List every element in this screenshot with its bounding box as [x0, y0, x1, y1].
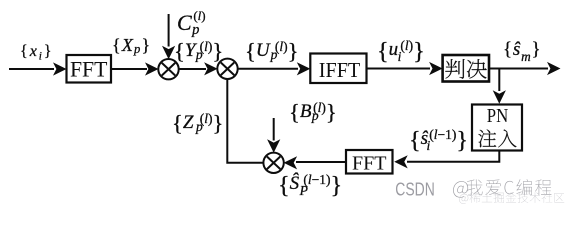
node label {u_i^(l)}: [377, 39, 425, 64]
wire: PN box down and left to bottom FFT: [407, 151, 499, 162]
wire: B_p arrow shaft: [273, 118, 275, 141]
watermark @稀土掘金技术社区: [459, 194, 468, 204]
svg-text:FFT: FFT: [352, 153, 387, 175]
node label {x_i}: [20, 44, 54, 63]
arrowhead into decision box: [429, 62, 443, 75]
wire: multiplier 1 to multiplier 2: [179, 68, 207, 70]
svg-text:CSDN: CSDN: [395, 178, 435, 199]
block IFFT: [310, 54, 366, 84]
text 决: [467, 59, 487, 78]
node label {s_m hat}: [503, 40, 541, 63]
node label {X_p}: [112, 36, 151, 56]
arrowhead into IFFT: [297, 62, 311, 75]
multiplier 3 (B_p): [263, 153, 283, 173]
block FFT (top): [67, 55, 112, 83]
arrowhead down into PN box: [493, 90, 506, 104]
node label {Z_p^(l)}: [172, 112, 223, 135]
arrowhead into bottom FFT from right: [394, 155, 408, 168]
multiplier 1 (C_p): [158, 59, 178, 79]
block decision (judge): [443, 55, 489, 82]
wire: FFT to multiplier 1: [111, 68, 147, 70]
node label C_p^(l): [177, 9, 206, 37]
wire: multiplier 2 to IFFT: [238, 68, 299, 70]
text 判: [445, 59, 464, 79]
arrowhead into FFT: [53, 62, 67, 75]
wire: C_p arrow shaft: [168, 14, 170, 47]
block PN injection: [472, 105, 522, 151]
arrowhead into multiplier 2: [204, 62, 218, 75]
node label {s_i^(l-1) hat}: [409, 128, 468, 153]
arrowhead of C_p into multiplier 1: [162, 46, 175, 60]
arrowhead into multiplier 1: [145, 62, 159, 75]
wire: bottom FFT to multiplier 3: [296, 161, 346, 163]
wire: input to FFT: [9, 68, 54, 70]
arrowhead into multiplier 3 from right: [284, 156, 298, 169]
wire: decision box output to right edge: [489, 68, 548, 70]
svg-text:IFFT: IFFT: [319, 58, 361, 82]
text 入: [498, 130, 516, 148]
svg-text:PN: PN: [487, 105, 509, 127]
node label {U_p^(l)}: [245, 40, 298, 63]
node label {Y_p^(l)}: [174, 40, 223, 63]
text 注: [478, 130, 496, 148]
arrowhead of B_p into multiplier 3: [267, 139, 280, 153]
block FFT (bottom): [346, 150, 393, 174]
arrowhead at right output: [547, 62, 561, 75]
node label {S_P^(l-1) hat}: [278, 173, 342, 198]
wire: branch down from output to PN box: [498, 69, 500, 92]
svg-text:FFT: FFT: [70, 57, 108, 82]
multiplier 2 (Z_p): [217, 59, 237, 79]
wire: multiplier 3 left and up to multiplier 2 (Z_p feedback): [227, 79, 263, 163]
node label {B_p^(l)}: [289, 101, 337, 124]
wire: IFFT to decision box: [367, 68, 431, 70]
